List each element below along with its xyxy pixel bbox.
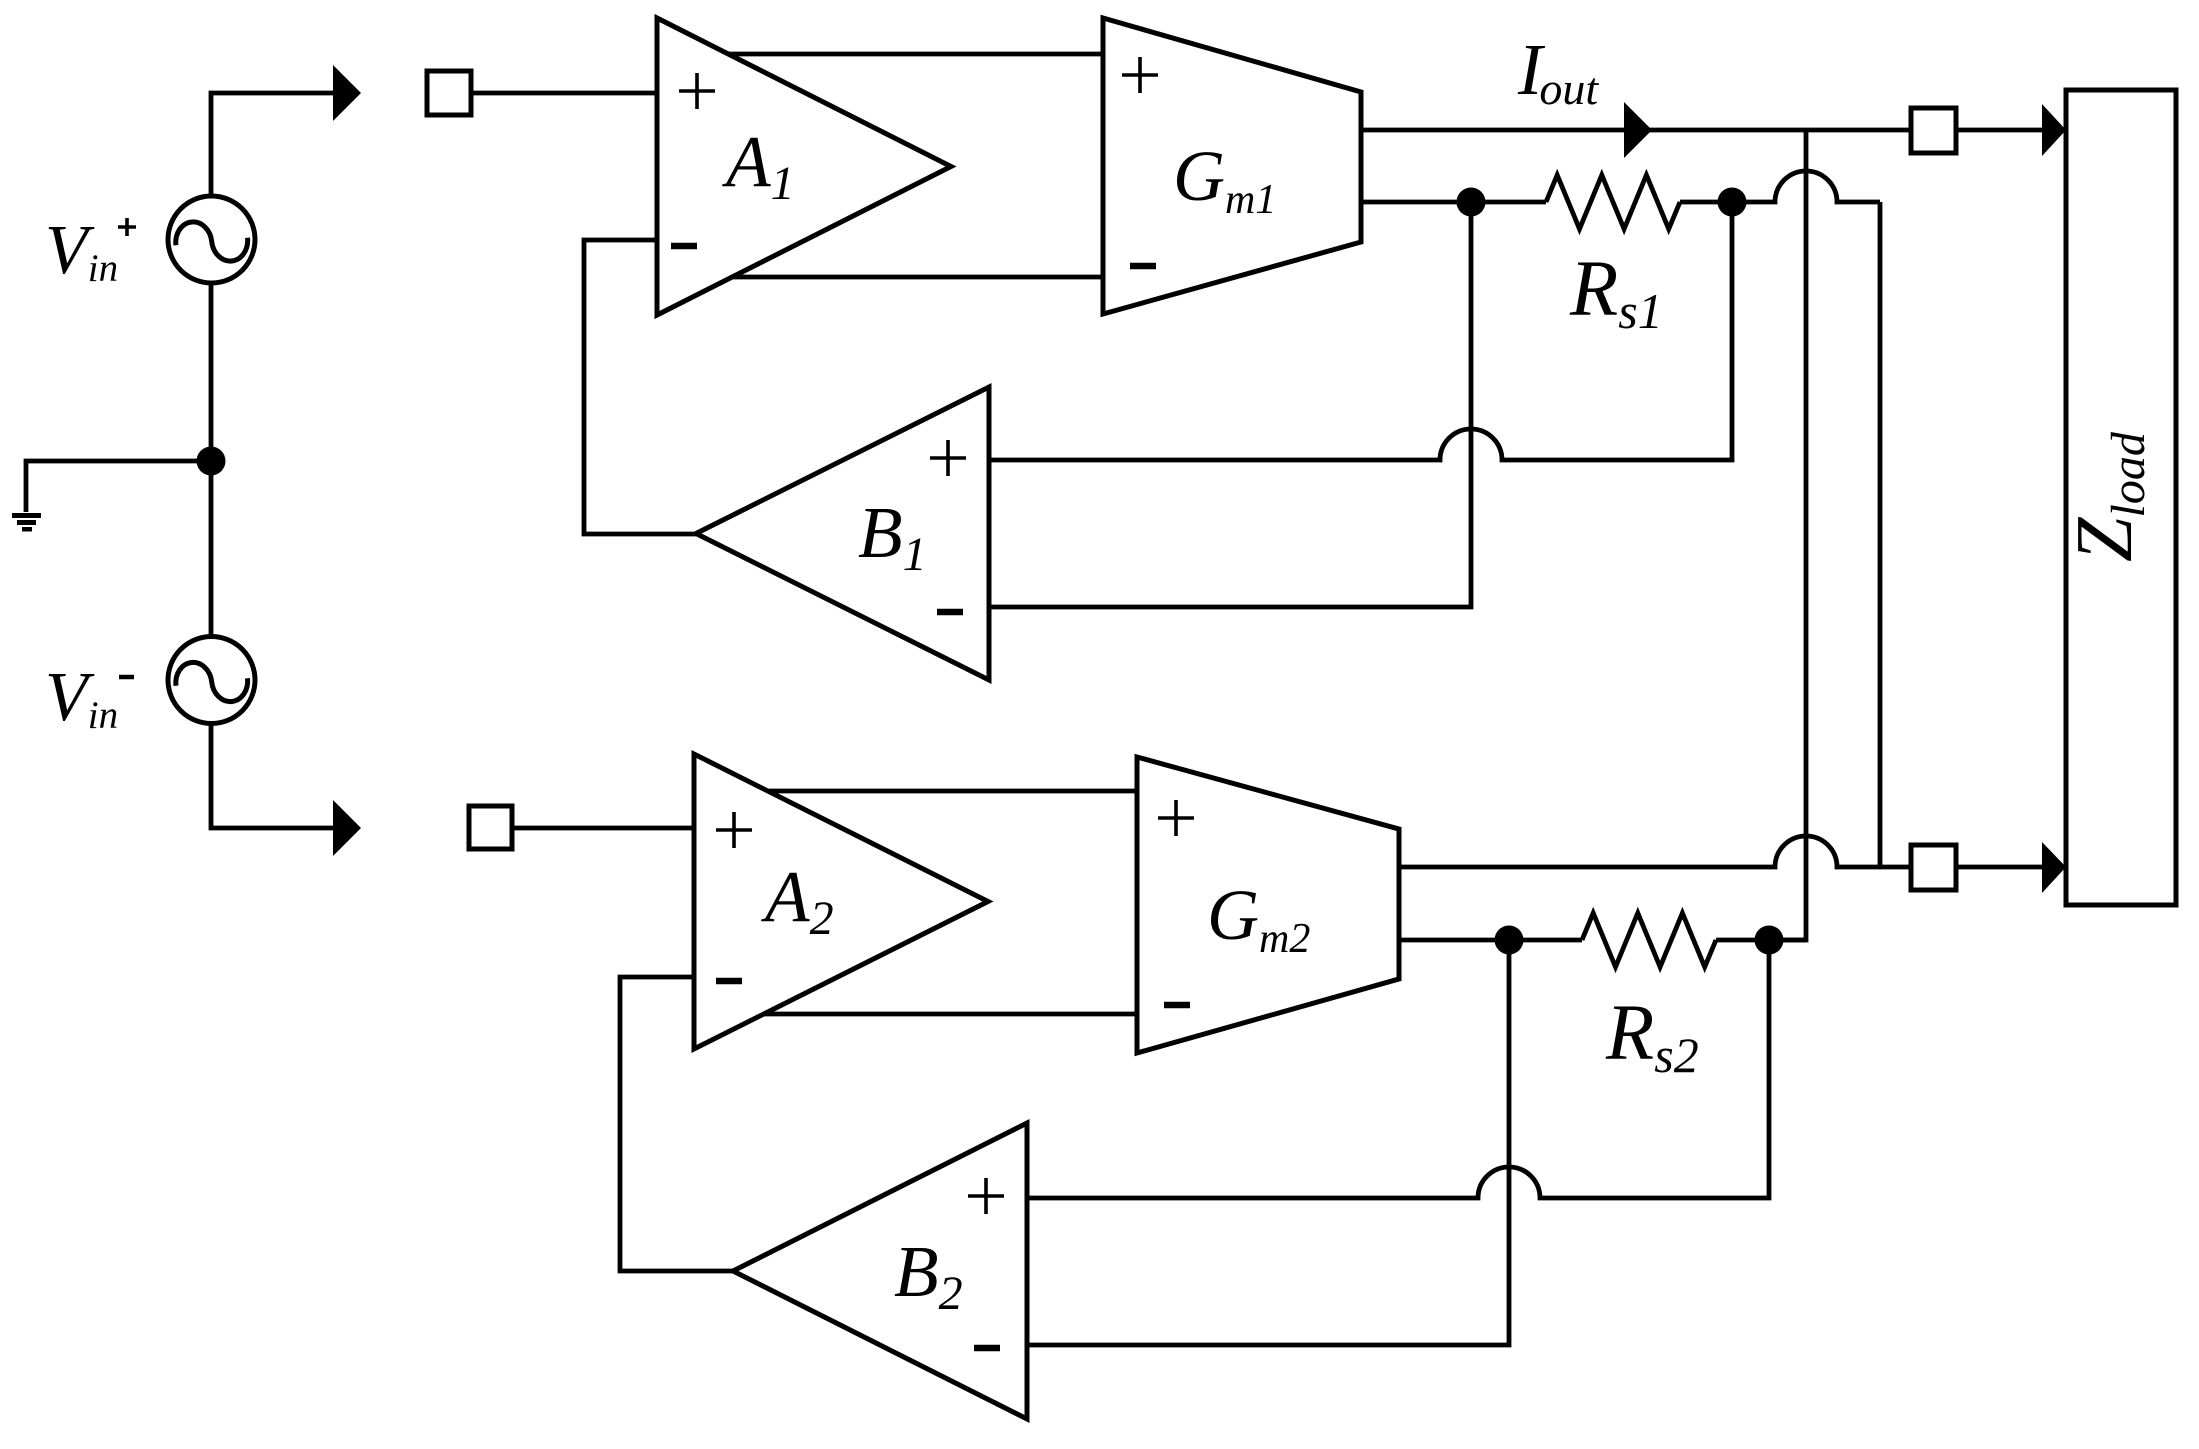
node Rs1 left [1457, 188, 1486, 217]
label Vin- [45, 659, 118, 737]
minus sign B2 [974, 1345, 1000, 1352]
svg-text:Zload: Zload [2061, 431, 2155, 562]
wire A1 top output to Gm1 [728, 52, 1103, 57]
svg-text:Vin: Vin [45, 659, 118, 737]
label Zload [2061, 431, 2155, 562]
wire Rs2 right to corner [1716, 938, 1806, 943]
wire Gm1 lower output to Rs1 [1361, 200, 1546, 205]
label Rs2 [1605, 990, 1699, 1083]
plus sign B1 [930, 440, 966, 476]
wire vertical from Iout node to Rs2 right node [1769, 130, 1806, 940]
resistor Rs1 [1546, 175, 1680, 229]
svg-text:Gm2: Gm2 [1207, 875, 1310, 962]
minus sign B1 [937, 609, 963, 616]
terminal square bottom input [469, 806, 512, 849]
wire square to A1 plus input [471, 91, 657, 96]
wire A1 feedback from B1 output [584, 240, 696, 534]
minus sign A1 [671, 243, 697, 250]
node Rs2 right [1755, 926, 1784, 955]
wire A2 bottom output to Gm2 [764, 1012, 1137, 1017]
wire Vin+ to input arrow [211, 93, 333, 197]
op-amp B2 [733, 1123, 1027, 1419]
plus sign A1 [679, 73, 715, 109]
svg-text:Iout: Iout [1517, 29, 1599, 114]
svg-text:B1: B1 [858, 492, 927, 581]
wire Vin- to input arrow bottom [211, 724, 333, 828]
svg-text:B2: B2 [894, 1231, 963, 1320]
arrow Iout [1624, 102, 1652, 158]
wire Vin+ bottom to Vin- top [209, 283, 214, 637]
terminal square top input [427, 71, 471, 115]
wire A2 top output to Gm2 [768, 789, 1137, 794]
plus sign Gm2 [1158, 800, 1194, 836]
label Vin+ [45, 212, 118, 290]
wire Iout from Gm1 to Zload [1361, 128, 2042, 133]
minus sign A2 [716, 978, 742, 985]
voltage source Vin+ [168, 196, 255, 283]
arrow input bottom [333, 800, 361, 856]
plus sign Gm1 [1122, 57, 1158, 93]
node junction common [197, 447, 226, 476]
svg-text:A2: A2 [761, 856, 834, 945]
terminal square Zload top [1911, 108, 1956, 153]
transconductor Gm1 [1103, 18, 1361, 314]
node Rs2 left [1495, 926, 1524, 955]
svg-text:Vin: Vin [45, 212, 118, 290]
resistor Rs2 [1582, 913, 1716, 967]
wire Rs1 right with hop over vertical [1680, 171, 1880, 202]
arrow into Zload bottom [2042, 842, 2066, 893]
plus sign A2 [716, 812, 752, 848]
label Gm2 [1207, 875, 1310, 962]
ground [12, 513, 41, 532]
wire Gm2 lower output to Rs2 [1399, 938, 1582, 943]
wire B2 plus input from Rs2 right with hop [1027, 940, 1769, 1198]
svg-text:Rs2: Rs2 [1605, 990, 1699, 1083]
load Zload [2066, 90, 2176, 905]
svg-text:Rs1: Rs1 [1569, 246, 1663, 339]
label Iout [1517, 29, 1599, 114]
wire junction to ground [26, 461, 211, 512]
op-amp A1 [657, 18, 951, 315]
label A2 [761, 856, 834, 945]
label Gm1 [1173, 136, 1276, 223]
plus sign B2 [968, 1178, 1004, 1214]
node Rs1 right [1718, 188, 1747, 217]
minus sign Gm1 [1130, 263, 1156, 270]
label B2 [894, 1231, 963, 1320]
label Rs1 [1569, 246, 1663, 339]
terminal square Zload bottom [1911, 845, 1956, 890]
label B1 [858, 492, 927, 581]
arrow into Zload top [2042, 104, 2066, 156]
wire Gm2 upper output to Zload with hop [1399, 836, 2042, 867]
svg-text:Gm1: Gm1 [1173, 136, 1276, 223]
op-amp B1 [696, 387, 989, 680]
op-amp A2 [694, 754, 988, 1049]
wire B1 plus input from Rs1 right with hop [989, 202, 1732, 460]
wire B1 minus input from Rs1 left [989, 202, 1471, 607]
wire A2 feedback from B2 output [620, 977, 733, 1271]
svg-text:A1: A1 [722, 121, 795, 210]
transconductor Gm2 [1137, 757, 1399, 1053]
wire B2 minus input from Rs2 left [1027, 940, 1509, 1345]
wire vertical corner to lower Zload wire [1878, 202, 1883, 867]
arrow input top [333, 65, 361, 121]
wire A1 bottom output to Gm1 [732, 275, 1103, 280]
voltage source Vin- [168, 637, 255, 724]
wire square to A2 plus input [512, 826, 694, 831]
minus sign Gm2 [1164, 1002, 1190, 1009]
label A1 [722, 121, 795, 210]
